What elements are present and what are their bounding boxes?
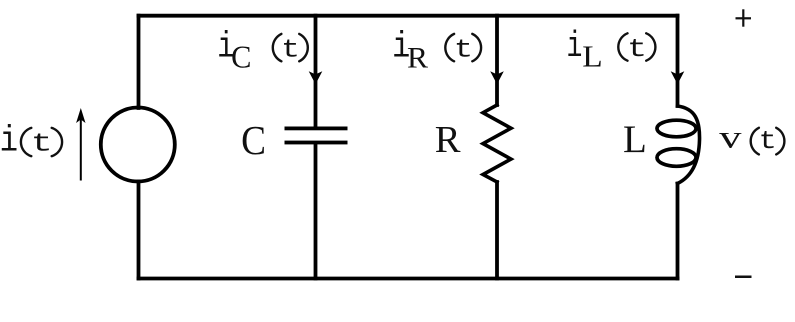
label v(t) open paren: [751, 128, 759, 155]
svg-text:t: t: [31, 130, 53, 159]
svg-text:C: C: [231, 39, 251, 75]
label iL(t) close paren: [646, 33, 655, 60]
svg-text:L: L: [582, 39, 602, 73]
inductor L coil loop 1: [657, 120, 696, 137]
source current arrow shaft: [80, 116, 82, 181]
source current arrow head: [76, 108, 85, 123]
inductor L coil loop 2: [657, 149, 696, 167]
arrow head iR: [490, 71, 504, 84]
inductor L coil backbone: [678, 106, 700, 184]
capacitor C plate top: [285, 127, 348, 131]
wire bottom bus: [139, 277, 678, 281]
svg-text:L: L: [623, 118, 647, 161]
arrow head iL: [671, 71, 685, 84]
arrow head iC: [309, 71, 323, 84]
plus sign (node + terminal): [736, 9, 752, 26]
svg-text:i: i: [0, 121, 18, 162]
current source I1: [101, 108, 175, 182]
label v(t) close paren: [776, 128, 784, 155]
svg-text:t: t: [281, 35, 300, 65]
label iR(t) close paren: [472, 34, 481, 61]
label iL(t) open paren: [618, 33, 627, 60]
wire inductor branch upper: [676, 16, 680, 106]
wire top bus: [139, 14, 678, 18]
svg-text:v: v: [719, 120, 742, 155]
label iC(t) open paren: [273, 34, 282, 61]
svg-text:i: i: [566, 26, 582, 67]
svg-text:C: C: [241, 118, 266, 163]
svg-text:t: t: [627, 34, 647, 64]
minus sign (node - terminal): [735, 275, 752, 278]
svg-text:R: R: [407, 41, 429, 74]
capacitor C plate bottom: [285, 141, 348, 145]
wire resistor branch upper: [495, 16, 499, 105]
wire capacitor branch lower: [314, 144, 318, 279]
wire capacitor branch upper: [314, 16, 318, 127]
label i(t) close paren: [52, 128, 62, 156]
svg-text:t: t: [759, 128, 777, 157]
label iR(t) open paren: [445, 34, 454, 61]
wire resistor branch lower: [495, 182, 499, 279]
wire left branch upper: [137, 16, 141, 108]
svg-text:t: t: [454, 35, 473, 64]
wire inductor branch lower: [676, 184, 680, 279]
label iC(t) close paren: [299, 34, 308, 61]
svg-text:R: R: [435, 119, 461, 161]
wire left branch lower: [137, 182, 141, 279]
resistor R zigzag: [483, 105, 511, 182]
label i(t) open paren: [21, 128, 31, 156]
